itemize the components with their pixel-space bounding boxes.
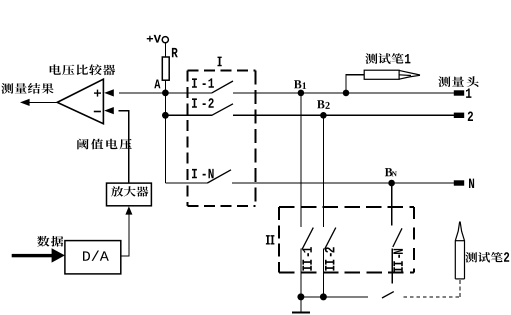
amplifier box 放大器 bbox=[107, 183, 152, 206]
switch II-1 bbox=[301, 93, 313, 297]
switch II-N bbox=[392, 183, 403, 283]
wire +V to resistor bbox=[164, 43, 166, 57]
node BN bbox=[385, 168, 397, 186]
switch I-N bbox=[165, 169, 231, 183]
label 阈值电压 (threshold voltage) bbox=[77, 139, 132, 150]
dashed lead to test pen 2 bbox=[403, 280, 460, 298]
test pen 1 lead wire bbox=[346, 75, 364, 93]
node A bbox=[154, 80, 169, 97]
label 数据 (data) bbox=[37, 236, 63, 247]
thick data arrow into D/A bbox=[12, 248, 65, 262]
ground symbol bbox=[292, 297, 310, 313]
line 1 wire to terminal bbox=[233, 92, 454, 94]
wire resistor to node A bbox=[164, 80, 166, 93]
bus junction 1 bbox=[297, 293, 304, 300]
node B1 bbox=[294, 80, 306, 96]
arrow into amplifier bottom bbox=[121, 206, 133, 256]
label II bbox=[266, 235, 270, 244]
output wire with arrow, 测量结果 (measurement result) bbox=[1, 83, 53, 94]
terminal N bbox=[454, 179, 474, 188]
terminal 1 bbox=[454, 89, 472, 98]
line N wire to terminal bbox=[232, 182, 454, 184]
dashed box I bbox=[188, 71, 256, 206]
D/A converter box bbox=[65, 241, 121, 274]
resistor R bbox=[162, 48, 177, 80]
switch I-2 bbox=[165, 98, 233, 115]
label 测试笔2 bbox=[465, 252, 509, 262]
+V supply terminal bbox=[147, 35, 169, 43]
op-amp U1 (comparator) bbox=[57, 79, 103, 124]
pen 2 selector blade bbox=[382, 292, 394, 298]
- input arrow and wire from amplifier bbox=[104, 107, 129, 183]
label I bbox=[218, 57, 222, 67]
node B2 bbox=[317, 100, 330, 118]
dashed box II bbox=[279, 207, 414, 273]
rail from node A down to line N bbox=[164, 93, 166, 183]
junction node on line 2 bbox=[162, 112, 169, 119]
label 电压比较器 (voltage comparator) bbox=[50, 64, 116, 75]
+ input arrow and wire from node A bbox=[104, 89, 165, 96]
switch II-2 bbox=[323, 115, 335, 297]
bus junction 2 bbox=[320, 293, 327, 300]
label 测试笔1 bbox=[365, 53, 410, 64]
test pen 1 body bbox=[364, 70, 420, 79]
label 测量头 (measuring head) bbox=[438, 76, 478, 87]
test pen 1 junction bbox=[343, 90, 350, 97]
line 2 wire to terminal bbox=[233, 114, 454, 116]
switch I-1 bbox=[165, 78, 233, 93]
test pen 2 body bbox=[455, 222, 464, 279]
terminal 2 bbox=[454, 112, 473, 122]
ground bus wire bbox=[301, 296, 368, 298]
